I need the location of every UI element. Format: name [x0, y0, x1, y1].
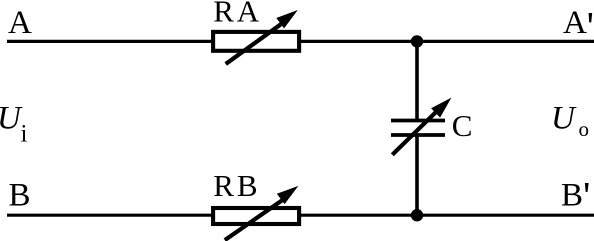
- capacitor C arrow: [392, 98, 451, 155]
- node label B': [561, 177, 589, 213]
- resistor RB body: [213, 208, 299, 224]
- node junction bottom: [411, 209, 423, 221]
- wire vertical branch upper segment: [415, 41, 419, 120]
- resistor RA body: [213, 32, 299, 51]
- wire bottom B to B': [7, 214, 594, 217]
- svg-text:A: A: [8, 5, 32, 41]
- node junction top: [411, 35, 423, 47]
- svg-text:i: i: [21, 121, 28, 148]
- svg-text:B: B: [9, 177, 31, 213]
- svg-text:RA: RA: [213, 0, 260, 29]
- svg-text:o: o: [579, 117, 590, 141]
- svg-text:B: B: [561, 177, 583, 213]
- capacitor C top plate: [391, 119, 445, 123]
- svg-text:RB: RB: [213, 168, 257, 203]
- svg-text:U: U: [551, 101, 577, 137]
- wire vertical branch lower segment: [415, 135, 419, 215]
- node label A': [563, 5, 592, 41]
- output voltage label Uo: [551, 101, 589, 141]
- svg-text:C: C: [452, 108, 473, 143]
- svg-text:A: A: [563, 5, 587, 41]
- wire top A to A': [7, 40, 594, 43]
- capacitor C bottom plate: [391, 133, 445, 137]
- resistor RB arrow: [225, 186, 299, 240]
- input voltage label Ui: [0, 101, 28, 148]
- resistor RA arrow: [226, 10, 298, 64]
